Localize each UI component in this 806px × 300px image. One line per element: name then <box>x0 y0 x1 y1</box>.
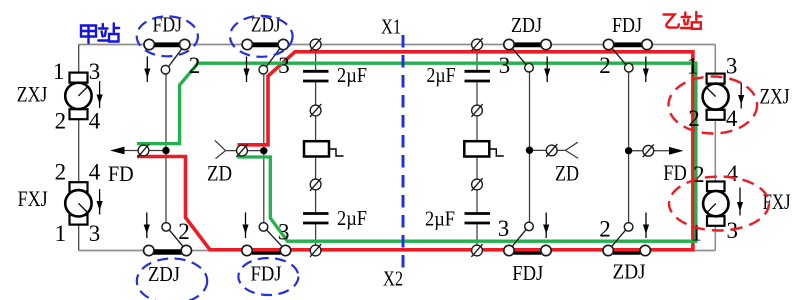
svg-text:2µF: 2µF <box>337 206 367 230</box>
contact bar: ZDJ bottom-A fixed contact bridge <box>154 249 182 254</box>
svg-text:FD: FD <box>108 161 134 186</box>
junction node: ZD branch / column B <box>526 147 533 154</box>
fuse terminal: ZD branch (station B) <box>546 144 557 157</box>
relay ZXJ (station B): coil circle with terminal blocks on right frame edge <box>703 74 729 120</box>
wire: ZD branch horizontal with fork terminal (station B) <box>530 142 579 158</box>
svg-text:4: 4 <box>727 161 739 186</box>
svg-text:2: 2 <box>178 219 190 244</box>
arrow: drop-away indicator under FDJ top-A <box>144 57 150 83</box>
highlight: red dashed ellipse around relay ZXJ-B <box>669 77 758 134</box>
svg-text:2: 2 <box>55 108 67 133</box>
svg-text:FDJ: FDJ <box>612 13 642 37</box>
wire: capacitor/coil column leads (station B side, x=477) <box>476 50 478 245</box>
svg-text:3: 3 <box>89 221 101 246</box>
wire: top bus line <box>79 44 716 46</box>
fuse terminal: bottom bus left cap column <box>310 244 321 257</box>
arrow: drop-away indicator above ZDJ bottom-B <box>643 213 649 239</box>
svg-text:4: 4 <box>89 160 101 185</box>
arrow: drop-away indicator above ZDJ bottom-A <box>144 213 150 239</box>
junction node: ZD branch / column A <box>260 147 267 154</box>
fuse terminal: mid lower left cap column <box>310 178 321 191</box>
capacitor C2 2uF (bottom left) <box>303 214 329 224</box>
highlight: blue dashed ellipse around FDJ bottom-A <box>238 258 298 295</box>
svg-text:ZXJ: ZXJ <box>760 84 790 109</box>
contact FDJ front contact (station B, bottom) <box>504 222 551 256</box>
wire: ZD column vertical (station A, x=263.8) <box>263 74 265 223</box>
svg-text:FDJ: FDJ <box>153 13 183 37</box>
svg-text:3: 3 <box>278 220 290 245</box>
svg-text:ZD: ZD <box>207 161 232 186</box>
svg-text:3: 3 <box>499 53 511 78</box>
svg-text:2: 2 <box>599 217 611 242</box>
fuse terminal: top bus left cap column <box>310 38 321 51</box>
svg-text:FDJ: FDJ <box>251 262 282 286</box>
route: green current path (FD station A -> top line wire -> station B -> bottom line wire -> ZD station A) <box>137 63 696 241</box>
svg-text:2µF: 2µF <box>425 207 455 231</box>
arrow: drop-away indicator above FDJ bottom-B <box>543 213 549 239</box>
svg-text:1: 1 <box>687 54 699 79</box>
junction node: FD branch / column B <box>625 147 632 154</box>
wire: ZD branch horizontal with fork terminal (station A) <box>215 140 264 158</box>
fuse terminal: mid lower right cap column <box>471 178 482 191</box>
wire: FD column vertical (station A, x=166) <box>165 74 167 223</box>
highlight: blue dashed ellipse around FDJ top-A <box>137 16 198 56</box>
wire: capacitor/coil column leads (station A side, x=315.6) <box>315 50 317 245</box>
arrow: drop-away indicator under ZDJ top-B <box>544 57 550 83</box>
svg-text:2: 2 <box>189 53 201 78</box>
svg-text:3: 3 <box>278 53 290 78</box>
relay ZXJ (station A): coil circle with terminal blocks on left frame edge <box>65 73 91 120</box>
capacitor C3 2uF (top right) <box>465 71 491 81</box>
contact ZDJ front contact (station B, bottom) <box>603 223 650 256</box>
svg-text:ZXJ: ZXJ <box>17 82 48 107</box>
svg-text:3: 3 <box>89 59 101 84</box>
highlight: blue dashed ellipse around ZDJ bottom-A <box>137 259 207 300</box>
svg-text:FXJ: FXJ <box>18 186 48 211</box>
svg-text:ZD: ZD <box>555 161 579 186</box>
svg-text:FD: FD <box>663 160 687 185</box>
svg-text:X2: X2 <box>383 267 403 291</box>
svg-text:ZDJ: ZDJ <box>511 13 542 37</box>
fuse terminal: FD branch (station A) <box>138 144 149 157</box>
arrow: drop-away indicator beside relay FXJ-A <box>97 189 103 215</box>
wire: outer line-circuit frame (top bus, right edge, bottom bus, left edge) <box>79 45 716 251</box>
arrow: drop-away indicator beside relay ZXJ-B <box>738 83 744 109</box>
wire: ZD column vertical (station B, x=529.5) <box>529 72 531 223</box>
svg-text:FDJ: FDJ <box>512 261 543 285</box>
svg-text:2: 2 <box>693 162 705 187</box>
wire: FD branch horizontal with out-arrow (station B) <box>629 147 684 155</box>
svg-text:1: 1 <box>691 221 703 246</box>
coil: line relay coil (station A side) with hook <box>304 141 344 156</box>
svg-text:2: 2 <box>55 160 67 185</box>
svg-text:ZDJ: ZDJ <box>613 260 646 284</box>
label: station A (jia zhan), blue hand-drawn glyphs <box>81 24 119 44</box>
fuse terminal: mid upper right cap column <box>471 104 482 117</box>
contact ZDJ front contact (station A, bottom) <box>144 223 192 256</box>
contact bar: FDJ bottom-A fixed contact bridge <box>252 249 281 254</box>
arrow: drop-away indicator above FDJ bottom-A <box>242 213 248 239</box>
arrow: drop-away indicator beside relay FXJ-B <box>737 188 743 216</box>
svg-text:4: 4 <box>89 108 101 133</box>
wire: bottom bus line <box>79 250 716 252</box>
svg-text:X1: X1 <box>381 14 401 38</box>
fuse terminal: ZD branch (station A) <box>236 144 247 157</box>
fuse terminal: mid upper left cap column <box>310 104 321 117</box>
svg-text:2: 2 <box>688 106 700 131</box>
svg-text:4: 4 <box>726 106 738 131</box>
svg-text:3: 3 <box>498 216 510 241</box>
wire: FD column vertical (station B, x=628.6) <box>628 72 630 223</box>
fuse terminal: top bus right cap column <box>471 38 482 51</box>
arrow: drop-away indicator beside relay ZXJ-A <box>97 81 103 108</box>
contact bar: ZDJ bottom-B fixed contact bridge <box>613 249 640 254</box>
wire: left frame edge through relays ZXJ-A / FXJ-A <box>78 45 80 251</box>
route: red current path (FD station A -> bottom line wire -> station B -> top line wire -> ZD station A) <box>137 52 693 250</box>
fuse terminal: FD branch (station B) <box>643 144 654 157</box>
arrow: drop-away indicator under ZDJ top-A <box>243 57 249 83</box>
contact FDJ front contact (station B, top) <box>603 39 652 72</box>
wire: station boundary dashed divider X1-X2 <box>402 35 405 272</box>
svg-text:ZDJ: ZDJ <box>148 262 180 286</box>
svg-text:1: 1 <box>55 221 67 246</box>
capacitor C1 2uF (top left) <box>303 71 329 81</box>
coil: line relay coil (station B side) with hook <box>464 141 504 156</box>
contact ZDJ front contact (station A, top) <box>242 39 288 74</box>
svg-text:1: 1 <box>53 59 65 84</box>
wire: right frame edge through relays ZXJ-B / FXJ-B <box>714 45 716 251</box>
svg-text:2µF: 2µF <box>337 63 367 87</box>
arrow: drop-away indicator under FDJ top-B <box>643 57 649 83</box>
svg-text:2µF: 2µF <box>427 63 456 87</box>
capacitor C4 2uF (bottom right) <box>465 214 491 224</box>
fuse terminal: bottom bus right cap column <box>471 244 482 257</box>
highlight: blue dashed ellipse around ZDJ top-A <box>230 16 293 57</box>
contact bar: FDJ bottom-B fixed contact bridge <box>514 249 541 254</box>
wire: FD branch horizontal with out-arrow (station A) <box>110 147 166 155</box>
junction node: FD branch / column A <box>162 147 169 154</box>
relay FXJ (station A): coil circle with terminal blocks on left frame edge <box>65 182 91 224</box>
relay FXJ (station B): coil circle with terminal blocks on right frame edge <box>703 182 728 226</box>
label: station B (yi zhan), red hand-drawn glyphs <box>664 12 702 29</box>
contact ZDJ front contact (station B, top) <box>504 39 551 72</box>
svg-text:2: 2 <box>599 53 611 78</box>
contact FDJ front contact (station A, top): circles, bar, movable arm, pivot <box>144 39 190 74</box>
highlight: red dashed ellipse around relay FXJ-B <box>669 177 769 231</box>
contact FDJ front contact (station A, bottom) <box>242 223 291 256</box>
svg-text:3: 3 <box>726 54 738 79</box>
